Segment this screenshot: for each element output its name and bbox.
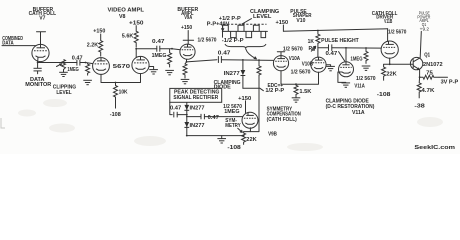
node 1K top (317, 30, 319, 32)
svg-text:1/2 5670: 1/2 5670 (388, 29, 407, 35)
svg-text:3V P-P: 3V P-P (441, 80, 459, 86)
tube V11A (339, 62, 354, 77)
svg-text:MONITOR: MONITOR (25, 82, 51, 88)
resistor 1K pulse height pot (316, 31, 320, 48)
label pulse shaper V10 (290, 9, 312, 24)
wire Q1 collector (420, 31, 421, 57)
svg-text:0.47: 0.47 (152, 39, 165, 45)
svg-text:V11A: V11A (354, 84, 365, 90)
svg-text:SeekIC.com: SeekIC.com (414, 145, 455, 151)
label sym-metry (225, 118, 241, 129)
wire V11B plate (387, 29, 389, 42)
wire pot junction right (318, 47, 329, 49)
node EDC resistor top (258, 59, 260, 61)
resistor 1MEG grid (86, 63, 90, 76)
wire V11A plate drop (345, 48, 347, 62)
svg-text:1/2 5670: 1/2 5670 (198, 38, 217, 44)
brace under waveform (225, 44, 266, 48)
ground detector bottom (217, 136, 226, 143)
wire clamp diode down (242, 60, 244, 70)
resistor 1.5K (294, 84, 298, 96)
tick EDC label pointer (260, 88, 264, 91)
wire V11A cathode loop (338, 72, 346, 82)
wire +150 down (282, 25, 284, 31)
resistor V9A cathode (183, 62, 187, 79)
arrow 1K pot wiper (311, 46, 315, 51)
svg-text:0.47: 0.47 (170, 106, 181, 112)
tube V8b (132, 56, 149, 73)
wire V9A cathode (186, 59, 188, 62)
svg-text:P-P+40V: P-P+40V (207, 21, 230, 27)
node detector mid right (186, 116, 187, 117)
wire pot to V10B plate (317, 48, 319, 58)
svg-text:+150: +150 (181, 25, 192, 31)
svg-text:IN277: IN277 (190, 123, 205, 129)
resistor 22K symmetry (242, 132, 246, 145)
resistor 22K driver (382, 64, 386, 80)
label symmetry compensation (267, 106, 302, 137)
resistor 75 output (420, 75, 440, 79)
svg-text:-1/2 P-P: -1/2 P-P (222, 38, 245, 44)
capacitor 0.47 pulse height (329, 44, 382, 51)
wire input (2, 45, 36, 47)
svg-text:-108: -108 (377, 92, 391, 98)
label clamping level (250, 9, 279, 20)
svg-text:1MEG: 1MEG (351, 56, 363, 62)
label video ampl V8 (108, 8, 145, 21)
wire EDC to V9B cathode (250, 88, 259, 131)
svg-text:V7: V7 (39, 15, 45, 21)
node detector mid (186, 114, 188, 116)
node grid V8a (85, 62, 87, 64)
svg-text:10K: 10K (119, 90, 128, 96)
ground V8b right (149, 67, 158, 75)
ground clipping pot (59, 70, 68, 77)
ground V11A (342, 83, 351, 87)
wire top rail (283, 29, 387, 31)
label clipping level (53, 85, 76, 96)
resistor EDC load (257, 60, 261, 88)
curved arrow brace to clamp node (246, 49, 257, 59)
ground 1MEG grid (83, 80, 92, 84)
ground V9A cathode (181, 79, 190, 83)
node 1.5K top (295, 83, 297, 85)
svg-text:1MEG: 1MEG (67, 67, 78, 73)
wire V7 plate to supply tick (40, 32, 42, 48)
wire output (439, 76, 447, 78)
resistor 5.6K (134, 25, 138, 47)
svg-text:1MEG: 1MEG (224, 109, 239, 115)
svg-text:V10: V10 (296, 18, 305, 24)
svg-text:LEVEL: LEVEL (253, 14, 271, 20)
ground V10B grid (326, 65, 335, 71)
tube V10A (273, 56, 288, 71)
svg-text:V11A: V11A (352, 110, 365, 116)
svg-text:+150: +150 (276, 20, 289, 26)
svg-text:(CATH FOLL): (CATH FOLL) (267, 117, 298, 123)
tube V9A (180, 44, 195, 59)
wire cathode to Q1 base (384, 63, 414, 65)
resistor 10K (114, 83, 118, 109)
label buffer ampl V9A (177, 7, 198, 21)
wire clamp bottom (243, 87, 259, 89)
svg-text:V10A: V10A (289, 56, 301, 62)
wire V10A plate tick (277, 52, 284, 56)
svg-text:-108: -108 (110, 112, 121, 118)
node clamp diode (242, 59, 244, 61)
svg-text:+150: +150 (238, 96, 251, 102)
node V11A plate (345, 47, 347, 49)
wire V7 cathode down (37, 57, 39, 62)
node 1MEG pulse height (365, 47, 367, 49)
svg-text:2N1072: 2N1072 (423, 62, 443, 68)
svg-text:LEVEL: LEVEL (56, 90, 71, 96)
tube V9B (242, 112, 258, 128)
wire V9A cathode to clamp cap (187, 60, 217, 62)
svg-text:1/2 P-P: 1/2 P-P (265, 88, 285, 94)
diode IN277 clamp (241, 70, 246, 88)
resistor 1MEG pulse height (364, 48, 368, 64)
label clamping diode (214, 80, 241, 90)
transistor Q1 (410, 57, 422, 70)
node 10K junction (115, 82, 117, 84)
svg-text:5670: 5670 (113, 64, 131, 70)
svg-text:V9B: V9B (268, 131, 277, 137)
wire V8 cathode bus (101, 74, 141, 83)
resistor 1MEG V9A grid (168, 49, 172, 68)
svg-text:-38: -38 (414, 104, 425, 110)
wire Q1 emitter (419, 70, 421, 78)
svg-text:75: 75 (426, 71, 433, 77)
node V9A grid (171, 48, 173, 50)
wire V11A grid diagonal (339, 52, 345, 61)
svg-text:V11B: V11B (384, 19, 392, 25)
svg-text:Q1: Q1 (424, 52, 430, 58)
capacitor 0.47 detector mid (187, 114, 243, 119)
wire box to cap1 (170, 102, 172, 114)
svg-text:1.5K: 1.5K (299, 89, 311, 95)
resistor 2.2K (99, 34, 103, 57)
supply bar above V7 (37, 31, 46, 33)
label cath foll driver V11B (372, 11, 398, 25)
ground 1MEG V9A grid (165, 70, 174, 74)
arrow P-P+40V to waveform (222, 26, 224, 30)
label data monitor (25, 77, 51, 88)
wire V8b plate down (135, 49, 137, 57)
svg-text:VIDEO AMPL: VIDEO AMPL (108, 8, 145, 14)
svg-text:+150: +150 (93, 29, 105, 35)
svg-text:IN277: IN277 (224, 71, 240, 77)
svg-text:0.47: 0.47 (208, 115, 219, 121)
tube V11B (381, 41, 398, 58)
svg-text:1K: 1K (308, 39, 315, 45)
wire +150 to V9B plate (245, 101, 247, 113)
svg-text:SIGNAL RECTIFIER: SIGNAL RECTIFIER (173, 95, 218, 101)
box peak detecting signal rectifier (170, 88, 222, 102)
arrow clamping level to dashed line (242, 19, 252, 26)
svg-text:V9A: V9A (184, 15, 192, 21)
dashed clamping level line (224, 23, 267, 25)
wire V9B cathode (244, 128, 251, 132)
wire cathode to clipping pot (38, 62, 62, 64)
scan smudge blobs (18, 99, 443, 151)
wire detector bus (186, 103, 188, 136)
tube V10B (311, 57, 326, 72)
tube V7 (32, 44, 49, 61)
svg-text:(D-C RESTORATION): (D-C RESTORATION) (326, 104, 375, 110)
label EDC level (265, 83, 285, 94)
label peak detecting signal rectifier (173, 89, 219, 101)
node Q1 emitter (419, 76, 421, 78)
node detector bottom (186, 135, 188, 137)
svg-text:0.47: 0.47 (218, 51, 231, 57)
wire to V9A grid (172, 49, 180, 50)
node V11B cathode (389, 63, 391, 65)
svg-text:2.2K: 2.2K (87, 43, 99, 49)
tube V8a (93, 58, 110, 75)
svg-text:V8: V8 (119, 14, 126, 20)
supply tick V9A (183, 31, 193, 45)
label clamping diode dc restoration (326, 99, 375, 117)
svg-text:PULSE HEIGHT: PULSE HEIGHT (321, 38, 359, 44)
svg-text:1/2 5670: 1/2 5670 (356, 76, 376, 82)
wire detector bottom (187, 135, 244, 137)
ground 1.5K (292, 95, 301, 102)
label combined data (2, 36, 23, 46)
node V9A cathode (186, 61, 188, 63)
potentiometer clipping level (57, 60, 66, 70)
svg-text:-108: -108 (227, 145, 241, 151)
svg-text:1/2 5670: 1/2 5670 (283, 46, 303, 52)
node V7 cathode (37, 62, 39, 64)
svg-text:0.47: 0.47 (326, 51, 338, 57)
diode IN277 lower (184, 122, 189, 127)
label pulse power ampl Q1 (417, 11, 430, 32)
svg-text:22K: 22K (386, 72, 397, 78)
capacitor 0.47 input coupling (62, 60, 86, 66)
svg-text:22K: 22K (246, 137, 257, 143)
svg-text:1MEG: 1MEG (152, 53, 167, 59)
waveform pulses (223, 25, 266, 37)
wire clamp line to V10A grid (221, 59, 273, 62)
node 22K top (243, 135, 245, 137)
ground 1MEG pulse height (362, 66, 371, 70)
wire to V8a grid (86, 63, 93, 64)
wire V10 cathodes (281, 71, 319, 84)
scan smudge left edge (1, 118, 5, 128)
node V8b plate junction (135, 48, 137, 50)
svg-text:IN277: IN277 (190, 106, 205, 112)
capacitor 0.47 detector left (174, 112, 187, 118)
arrow symmetry pot (238, 128, 243, 132)
wire V11B cathode (389, 58, 391, 64)
capacitor data monitor (34, 63, 42, 74)
wire plate junction to coupling cap (136, 48, 157, 50)
svg-text:5.6K: 5.6K (122, 33, 134, 39)
waveform reference line (222, 30, 267, 32)
label buffer cath foll V7 (29, 7, 56, 21)
capacitor 0.47 to V9A (157, 46, 172, 52)
resistor 4.7K (417, 77, 421, 98)
svg-text:Rg: Rg (309, 46, 316, 52)
svg-text:4.7K: 4.7K (421, 88, 434, 94)
svg-text:+9.2: +9.2 (420, 26, 430, 31)
diode IN277 upper (184, 105, 189, 110)
svg-text:METRY: METRY (225, 123, 241, 129)
capacitor 0.47 clamp (218, 56, 221, 63)
svg-text:1/2 5670: 1/2 5670 (291, 69, 311, 75)
